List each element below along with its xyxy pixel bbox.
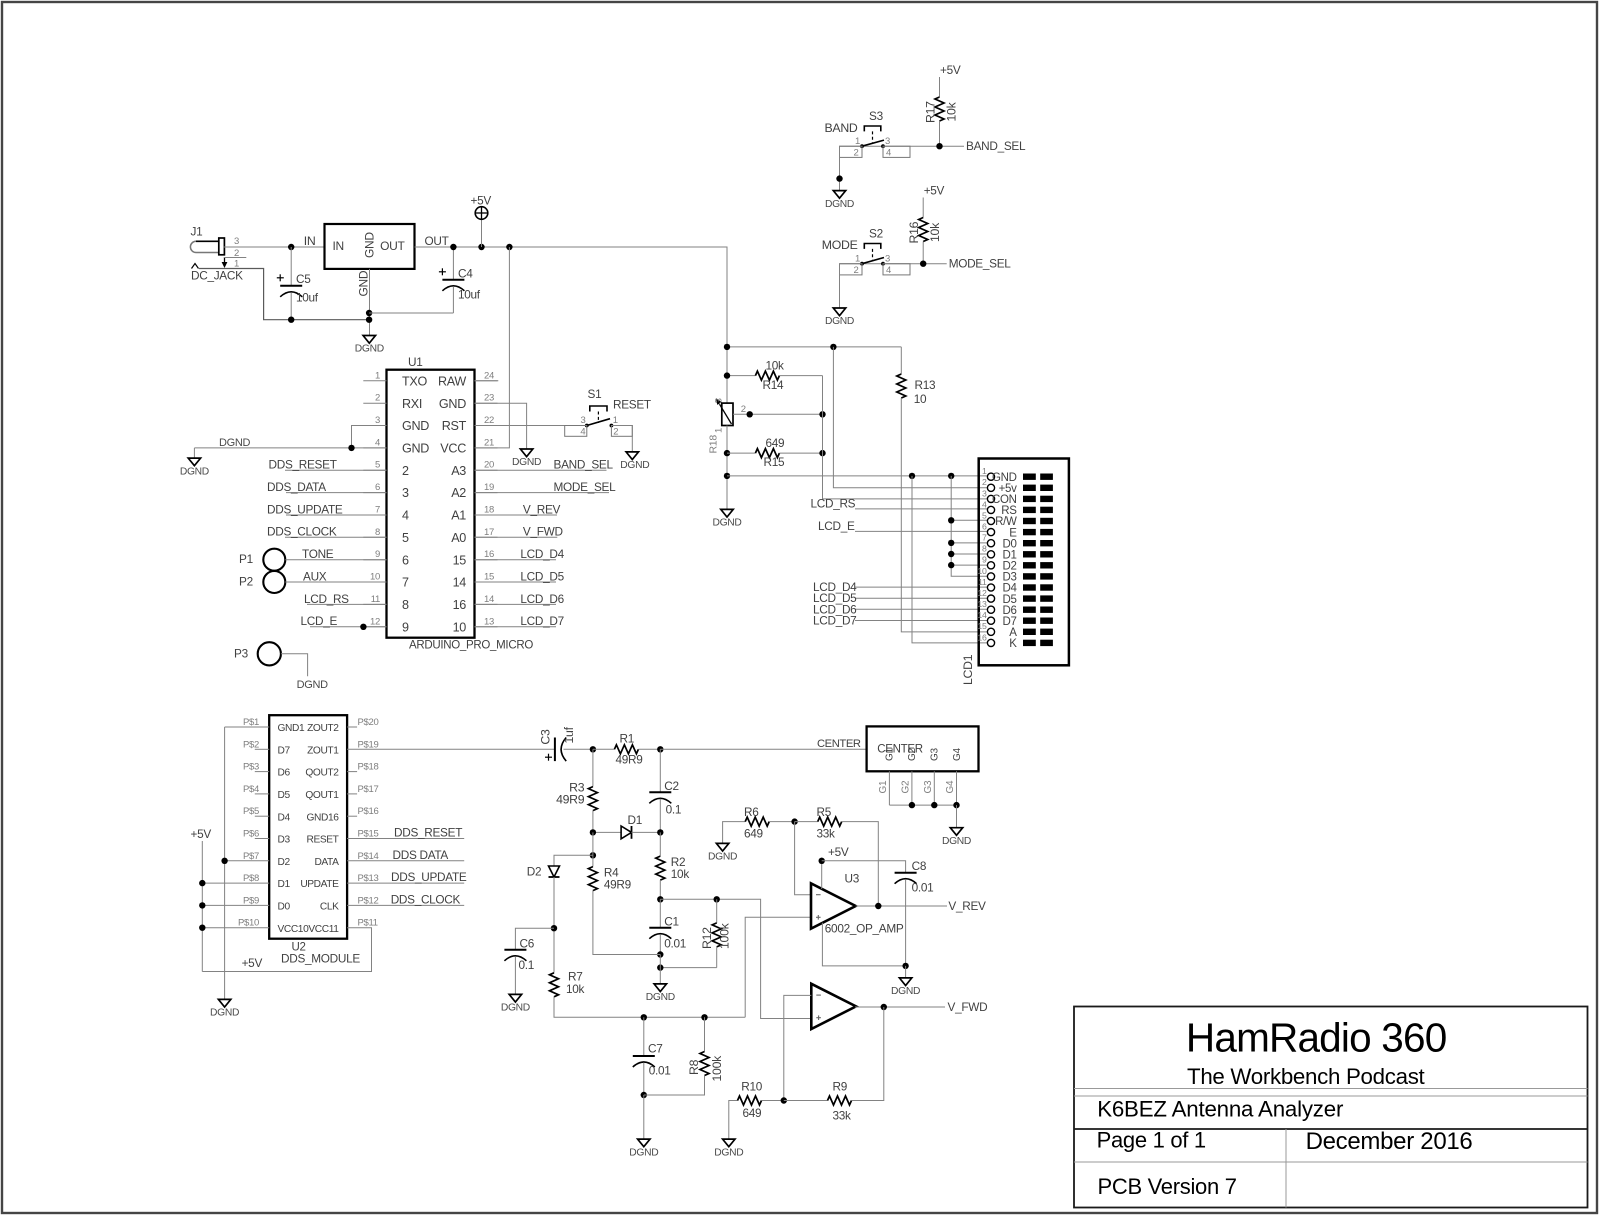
svg-text:0.01: 0.01: [664, 937, 686, 951]
junction 5V vertical/horizontal: [724, 344, 730, 350]
svg-text:P$10: P$10: [238, 918, 259, 929]
svg-text:14: 14: [484, 594, 494, 605]
wire net DDS_RESET at U1 pin5: [285, 469, 387, 471]
svg-text:P$13: P$13: [358, 873, 379, 884]
wire U1 VCC branch: [475, 247, 510, 448]
wire net RST U1 pin22 to S1: [475, 425, 587, 427]
svg-text:P$19: P$19: [358, 739, 379, 750]
S1 reference label: [588, 387, 602, 401]
title text PCB Version 7: [1098, 1174, 1237, 1199]
svg-text:P$7: P$7: [243, 851, 259, 862]
resistor R17 (10k) pull-up: [935, 77, 944, 146]
wire net BAND_SEL at U1 pin20: [475, 469, 607, 471]
net label V_REV: [948, 899, 986, 913]
svg-text:U3: U3: [845, 872, 860, 886]
svg-text:LCD_D5: LCD_D5: [520, 569, 564, 583]
svg-text:LCD_D6: LCD_D6: [520, 592, 564, 606]
resistor R5 (33k): [795, 817, 879, 906]
svg-text:9: 9: [375, 549, 380, 560]
S3 pin 2 pad box: [840, 146, 863, 159]
svg-text:VCC: VCC: [440, 442, 466, 456]
svg-text:D6: D6: [278, 768, 291, 779]
junction on LCD_E wire: [360, 624, 366, 630]
U1 value label ARDUINO_PRO_MICRO: [409, 640, 533, 652]
svg-text:GND: GND: [357, 270, 371, 296]
wire REV detector to U3 plus input: [745, 917, 811, 1017]
svg-text:R10: R10: [741, 1080, 762, 1094]
wire net LCD_D4 to LCD pin11: [855, 586, 987, 588]
svg-text:3: 3: [885, 253, 890, 264]
svg-text:3: 3: [714, 398, 725, 403]
svg-text:10: 10: [977, 566, 987, 576]
C3 reference label rotated: [539, 729, 553, 745]
svg-text:1uf: 1uf: [562, 726, 576, 743]
svg-text:C8: C8: [912, 859, 927, 873]
wire net DDS_DATA at U2 P$14: [347, 860, 464, 862]
R6 value label 649: [744, 826, 763, 840]
svg-text:S2: S2: [869, 226, 883, 240]
svg-text:D1: D1: [278, 879, 291, 890]
svg-text:RXI: RXI: [402, 397, 422, 411]
junction gnd rail / data branch: [948, 473, 954, 479]
svg-text:MODE_SEL: MODE_SEL: [949, 257, 1012, 271]
wire +5V rail from regulator OUT: [415, 247, 728, 403]
svg-text:G3: G3: [923, 780, 934, 793]
connector pin name CENTER: [877, 743, 922, 755]
wire D2 cathode to R7: [553, 877, 555, 973]
svg-text:DDS_RESET: DDS_RESET: [394, 826, 462, 840]
svg-text:DGND: DGND: [714, 1147, 743, 1158]
connector pin names G1-G4 rotated: [885, 748, 963, 761]
svg-text:ZOUT2: ZOUT2: [307, 723, 339, 734]
svg-text:DGND: DGND: [219, 437, 251, 449]
svg-text:+5V: +5V: [191, 827, 212, 841]
wire C8 bottom to ground: [905, 966, 907, 978]
ground symbol DGND at U3: [891, 978, 920, 997]
resistor R7 (10k): [550, 973, 746, 1018]
svg-text:R12: R12: [700, 927, 714, 949]
resistor R6 (649): [723, 817, 795, 843]
wire pot bottom to ground: [726, 426, 728, 510]
svg-text:P2: P2: [239, 575, 253, 589]
R14 value label 10k: [766, 358, 785, 372]
svg-text:11: 11: [978, 577, 987, 587]
net label DDS_UPDATE at U2: [391, 870, 467, 884]
svg-text:MODE: MODE: [822, 238, 858, 252]
title block row4 line: [1074, 1161, 1588, 1163]
resistor R12 (100k): [712, 899, 721, 967]
U1 reference label: [408, 355, 422, 369]
svg-text:VCC11: VCC11: [308, 924, 339, 935]
diode D1: [593, 826, 660, 839]
svg-text:ARDUINO_PRO_MICRO: ARDUINO_PRO_MICRO: [409, 640, 533, 652]
R8 value label 100k rotated: [710, 1055, 724, 1082]
wire net LCD_E to LCD pin6: [855, 530, 987, 532]
svg-text:12: 12: [370, 616, 380, 627]
switch S3 (BAND): [860, 126, 885, 148]
wire connector grounds joined: [889, 804, 956, 806]
net label DGND on wire: [219, 437, 251, 449]
wire net LCD_D6 to LCD pin13: [855, 608, 987, 610]
svg-text:DDS_CLOCK: DDS_CLOCK: [391, 892, 461, 906]
connector J1 DC_JACK symbol: [190, 238, 227, 269]
S2 value label MODE: [822, 238, 858, 252]
svg-text:DGND: DGND: [355, 344, 384, 355]
svg-text:10: 10: [453, 620, 467, 634]
junction MODE_SEL: [920, 261, 926, 267]
S2 pin 4 pad box: [883, 264, 910, 276]
ground symbol DGND below C7: [629, 1139, 658, 1158]
svg-text:4: 4: [375, 437, 380, 448]
svg-text:DDS_RESET: DDS_RESET: [269, 458, 337, 472]
R10 reference label: [741, 1080, 762, 1094]
svg-text:The Workbench Podcast: The Workbench Podcast: [1187, 1064, 1426, 1089]
svg-text:BAND_SEL: BAND_SEL: [554, 458, 614, 472]
C4 reference label: [458, 266, 473, 280]
regulator pin name IN: [333, 239, 344, 253]
svg-text:10uf: 10uf: [296, 291, 319, 305]
J1 value label DC_JACK: [191, 269, 243, 283]
svg-text:U1: U1: [408, 355, 422, 369]
svg-text:CENTER: CENTER: [817, 738, 861, 750]
regulator OUT net label: [425, 234, 449, 248]
junction R14 left: [724, 372, 730, 378]
connector CENTER box: [867, 726, 979, 771]
svg-text:OUT: OUT: [425, 234, 449, 248]
svg-text:13: 13: [484, 616, 494, 627]
R18 reference label rotated: [708, 435, 720, 454]
resistor R1 (49R9): [593, 745, 660, 754]
svg-text:J1: J1: [191, 225, 203, 239]
net label LCD_D5 at U1: [520, 569, 564, 583]
wire net DDS_DATA at U1 pin6: [286, 492, 387, 494]
svg-text:R18: R18: [708, 435, 720, 454]
junction C5 bottom: [288, 317, 294, 323]
svg-text:P$9: P$9: [243, 895, 259, 906]
regulator pin name GND rotated: [363, 232, 377, 258]
R17 value label 10k rotated: [944, 101, 958, 121]
C3 value label 1uf rotated: [562, 726, 576, 743]
svg-text:DDS DATA: DDS DATA: [393, 848, 449, 862]
R3 value label 49R9: [556, 792, 585, 806]
wire S3 pin2 to ground: [836, 146, 842, 190]
svg-text:49R9: 49R9: [556, 792, 585, 806]
wire net LCD_D5 to LCD pin12: [855, 597, 987, 599]
svg-text:V_FWD: V_FWD: [948, 1000, 988, 1014]
net label LCD_D4 at U1: [520, 547, 564, 561]
svg-text:1: 1: [855, 253, 860, 264]
D2 reference label: [527, 865, 541, 879]
svg-text:GND: GND: [439, 397, 466, 411]
svg-text:49R9: 49R9: [604, 877, 631, 891]
svg-text:A3: A3: [451, 464, 466, 478]
svg-text:1: 1: [234, 258, 239, 269]
svg-text:100k: 100k: [710, 1055, 724, 1082]
junction 5V rail at +5V symbol: [478, 244, 484, 250]
svg-text:December 2016: December 2016: [1306, 1128, 1473, 1155]
svg-text:DGND: DGND: [825, 316, 854, 327]
svg-text:C3: C3: [539, 729, 553, 745]
R5 value label 33k: [817, 826, 836, 840]
resistor R9 (33k): [784, 1007, 884, 1105]
ground symbol DGND below S3: [825, 191, 854, 210]
svg-text:RESET: RESET: [613, 398, 651, 412]
svg-text:D3: D3: [278, 835, 291, 846]
junction D2 tie: [948, 562, 954, 568]
svg-text:2: 2: [854, 148, 859, 159]
svg-text:5: 5: [402, 531, 409, 545]
U2 pin numbers P$1-P$20: [238, 717, 379, 929]
svg-text:10k: 10k: [671, 867, 690, 881]
svg-text:+5V: +5V: [940, 63, 961, 77]
R9 value label 33k: [833, 1108, 852, 1122]
svg-text:10k: 10k: [944, 101, 958, 121]
power symbol +5V: [475, 207, 488, 247]
svg-text:DGND: DGND: [501, 1003, 530, 1014]
junction C7 bottom: [641, 1092, 647, 1098]
svg-text:DGND: DGND: [708, 852, 737, 863]
connector pad P3: [258, 642, 281, 665]
capacitor C3 (1uf) series: [545, 738, 566, 762]
wire +5V to U3 supply: [821, 858, 823, 890]
svg-text:1: 1: [375, 370, 380, 381]
svg-text:BAND_SEL: BAND_SEL: [966, 139, 1026, 153]
svg-text:P$8: P$8: [243, 873, 259, 884]
svg-text:LCD1: LCD1: [961, 654, 975, 685]
net label MODE_SEL at U1: [554, 480, 617, 494]
svg-text:IN: IN: [333, 239, 344, 253]
junction R/W tie: [948, 517, 954, 523]
net label V_REV at U1: [523, 502, 561, 516]
junction R8 tap: [701, 1014, 707, 1020]
junction C1 bottom / R4: [657, 951, 663, 957]
ground symbol DGND below pot: [712, 509, 741, 528]
junction R15 right: [819, 450, 825, 456]
svg-text:R1: R1: [620, 731, 634, 745]
junction C6 tap: [551, 925, 557, 931]
svg-text:DDS_CLOCK: DDS_CLOCK: [267, 525, 337, 539]
R16 reference label rotated: [907, 221, 921, 243]
switch S2 (MODE): [860, 244, 885, 266]
svg-text:P1: P1: [239, 552, 253, 566]
C4 value label 10uf: [458, 287, 481, 301]
+5V label at power symbol: [471, 194, 492, 208]
C1 reference label: [664, 914, 678, 928]
svg-text:3: 3: [375, 415, 380, 426]
junction pin3/pin4 gnd: [348, 445, 354, 451]
svg-text:D5: D5: [278, 790, 291, 801]
title text Page 1 of 1: [1097, 1128, 1206, 1153]
wire G4 to ground: [956, 805, 958, 827]
svg-text:+5V: +5V: [242, 956, 263, 970]
R16 value label 10k rotated: [928, 222, 942, 242]
S1 pin 1 number: [613, 415, 618, 426]
svg-text:R5: R5: [817, 805, 832, 819]
wire net MODE_SEL at U1 pin19: [475, 492, 610, 494]
svg-text:P$11: P$11: [358, 918, 378, 929]
junction R4/D2 branch node: [590, 852, 596, 858]
R9 reference label: [833, 1080, 847, 1094]
svg-text:15: 15: [977, 621, 987, 631]
svg-text:V_FWD: V_FWD: [523, 525, 563, 539]
svg-text:MODE_SEL: MODE_SEL: [554, 480, 617, 494]
wire +5V vertical feed: [201, 841, 203, 972]
junction R6/R5 feedback node: [791, 818, 797, 824]
svg-text:RST: RST: [442, 419, 467, 433]
svg-text:G2: G2: [907, 748, 918, 761]
svg-text:DDS_MODULE: DDS_MODULE: [281, 952, 360, 966]
junction D1 tie: [948, 551, 954, 557]
svg-text:10: 10: [370, 572, 380, 583]
svg-text:6002_OP_AMP: 6002_OP_AMP: [825, 922, 904, 936]
net label DDS_CLOCK: [267, 525, 337, 539]
svg-text:9: 9: [982, 555, 987, 565]
svg-text:R14: R14: [763, 378, 784, 392]
svg-text:G1: G1: [878, 780, 889, 793]
svg-text:D2: D2: [278, 857, 291, 868]
svg-text:649: 649: [744, 826, 763, 840]
svg-text:P$18: P$18: [358, 762, 379, 773]
junction regulator gnd / C4 rail: [366, 310, 372, 316]
diode D2: [549, 866, 560, 877]
net label V_FWD: [948, 1000, 988, 1014]
svg-text:+5V: +5V: [924, 184, 945, 198]
R8 reference label rotated: [687, 1059, 701, 1075]
LCD1 pin circles: [987, 473, 994, 646]
junction 5V rail at U1 VCC branch: [506, 244, 512, 250]
svg-text:6: 6: [375, 482, 380, 493]
svg-text:6: 6: [982, 522, 987, 532]
svg-text:D2: D2: [527, 865, 541, 879]
S2 reference label: [869, 226, 883, 240]
wire 5V horizontal distribution: [727, 346, 901, 348]
svg-text:7: 7: [982, 533, 987, 543]
svg-text:7: 7: [402, 576, 409, 590]
svg-text:K6BEZ Antenna Analyzer: K6BEZ Antenna Analyzer: [1097, 1097, 1344, 1122]
svg-text:8: 8: [375, 527, 380, 538]
svg-text:R6: R6: [744, 805, 759, 819]
junction main node B: [657, 746, 663, 752]
svg-text:C2: C2: [664, 779, 678, 793]
svg-text:Page 1 of 1: Page 1 of 1: [1097, 1128, 1206, 1153]
C6 reference label: [520, 936, 535, 950]
svg-text:LCD_E: LCD_E: [301, 614, 338, 628]
svg-text:S3: S3: [869, 109, 884, 123]
J1 pin 3 number: [234, 236, 239, 247]
S1 pin 3 number: [581, 415, 586, 426]
svg-text:G4: G4: [945, 780, 956, 793]
svg-text:G2: G2: [901, 780, 912, 793]
svg-text:P$3: P$3: [243, 762, 259, 773]
resistor R8 (100k): [644, 1017, 709, 1095]
net label LCD_RS at U1: [304, 592, 349, 606]
junction U3 supply / C8: [819, 858, 825, 864]
wire net DDS_UPDATE at U1 pin7: [286, 514, 387, 516]
R15 value label 649: [766, 436, 785, 450]
R12 value label 100k rotated: [718, 922, 732, 949]
title block row3 line: [1074, 1128, 1588, 1130]
wire net LCD_D7 to LCD pin14: [855, 620, 987, 622]
svg-text:3: 3: [402, 486, 409, 500]
net label V_FWD at U1: [523, 525, 563, 539]
junction C7 tap: [641, 1014, 647, 1020]
U2 reference label: [292, 942, 306, 954]
net label LCD_D7: [813, 614, 856, 628]
S1 value label RESET: [613, 398, 651, 412]
voltage regulator IC box: [325, 224, 415, 269]
U1 pin names: [402, 374, 467, 634]
svg-text:10k: 10k: [566, 982, 585, 996]
svg-text:A1: A1: [451, 509, 466, 523]
net label DGND under P3: [297, 679, 329, 691]
wire net LCD_D7 at U1 pin13: [475, 626, 557, 628]
junction D1 anode: [590, 829, 596, 835]
svg-text:P$2: P$2: [243, 739, 259, 750]
svg-text:LCD_RS: LCD_RS: [811, 496, 856, 510]
svg-text:C1: C1: [664, 914, 678, 928]
wire net LCD_D5 at U1 pin15: [475, 581, 557, 583]
wire U2 GND1 to ground: [225, 727, 270, 999]
svg-text:4: 4: [402, 509, 409, 523]
R18 pin 2 number: [741, 404, 746, 415]
svg-text:+5V: +5V: [471, 194, 492, 208]
wire net DGND to U1 pins 3,4: [194, 426, 386, 448]
ic U1 ARDUINO_PRO_MICRO box: [387, 370, 475, 638]
svg-text:9: 9: [402, 620, 409, 634]
svg-text:DGND: DGND: [620, 460, 649, 471]
net label DDS_CLOCK at U2: [391, 892, 461, 906]
svg-text:2: 2: [982, 477, 987, 487]
wire C1 bottom to ground: [659, 955, 661, 984]
junction V_FWD feedback tap: [881, 1004, 887, 1010]
svg-text:LCD_D7: LCD_D7: [813, 614, 856, 628]
net label LCD_E at U1: [301, 614, 338, 628]
wire gnd to LCD pin16 K: [912, 476, 987, 643]
svg-text:14: 14: [977, 610, 987, 620]
svg-text:19: 19: [484, 482, 494, 493]
wire net CENTER to connector: [660, 748, 866, 750]
R3 reference label: [569, 780, 585, 794]
wire net BAND_SEL: [840, 145, 965, 147]
junction pot bottom / gnd rail: [724, 473, 730, 479]
svg-text:P$5: P$5: [243, 806, 259, 817]
svg-text:A0: A0: [451, 531, 466, 545]
power label +5V left of U2: [191, 827, 212, 841]
svg-text:HamRadio 360: HamRadio 360: [1186, 1014, 1447, 1060]
regulator pin name OUT: [380, 239, 405, 253]
S3 pin 3 number: [885, 136, 890, 147]
power label +5V at VCC11 loop: [242, 956, 263, 970]
R2 reference label: [671, 855, 685, 869]
J1 reference label: [191, 225, 203, 239]
C7 reference label: [648, 1041, 662, 1055]
svg-text:1: 1: [855, 136, 860, 147]
resistor R4 (49R9): [588, 832, 660, 954]
svg-text:14: 14: [453, 576, 467, 590]
svg-text:11: 11: [371, 594, 380, 605]
C6 value label 0.1: [519, 958, 535, 972]
R4 value label 49R9: [604, 877, 631, 891]
svg-text:P$14: P$14: [358, 851, 379, 862]
svg-text:P$20: P$20: [358, 717, 379, 728]
LCD1 contact bars: [1023, 474, 1053, 647]
svg-text:PCB Version 7: PCB Version 7: [1098, 1174, 1237, 1199]
junction D0 tie: [948, 540, 954, 546]
wire net TONE at U1 pin9: [285, 559, 386, 561]
junction BAND_SEL: [936, 143, 942, 149]
ground symbol DGND at U1 pin23: [512, 449, 541, 468]
capacitor C1 (0.01): [649, 899, 671, 954]
